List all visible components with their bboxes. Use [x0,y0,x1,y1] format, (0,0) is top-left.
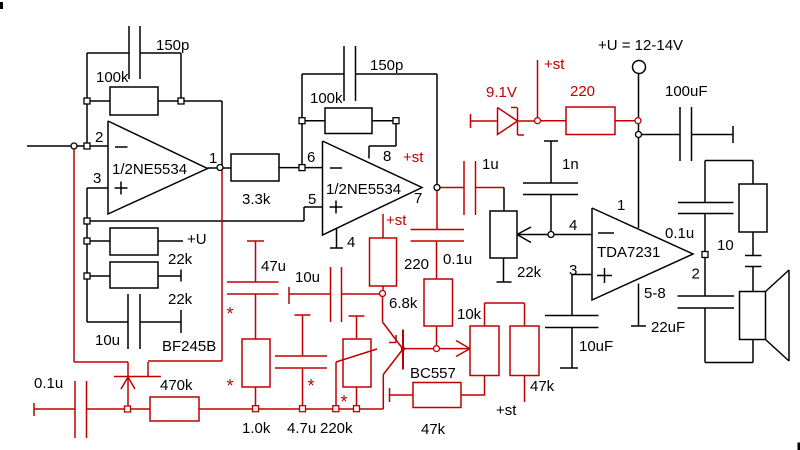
P1 wiper arrow lower barb [517,235,531,243]
node Q2 base R10 junction [434,346,440,352]
svg-text:47k: 47k [421,421,446,438]
wire C2 right lead [356,73,438,75]
wire Q1 drain drop [127,362,129,376]
wire C9 to volume pot [476,187,505,189]
svg-text:100k: 100k [310,90,343,107]
wire U3 pin 5-8 stub [638,284,640,327]
wire C11 to wiper node [550,195,552,235]
svg-text:1u: 1u [482,156,499,173]
C6 left terminal bar [288,287,290,304]
node rail C7 junction [300,406,306,412]
wire red U1 output to Q1 source [148,360,222,362]
wire R12 left lead [390,394,414,396]
op-amp U1 1/2NE5534 triangle [108,121,208,214]
capacitor C7 4.7u top plate [275,355,327,357]
wire R1 left lead [87,100,110,102]
resistor R13 47k [510,326,539,376]
wire feedback drop to U1 output [221,101,223,166]
wire R13 top drop [524,303,526,326]
wire zobel top link [705,160,753,162]
R11 arrowhead lower barb [456,349,470,357]
zener diode D1 9.1V triangle [498,108,518,135]
node U2 output [434,185,440,191]
Q2 emitter arrow barb vertical [395,335,397,343]
wire supply down to TDA pin 1 [638,74,640,229]
wire U2 pin 4 stub [336,228,338,248]
wire C5 top lead [255,241,257,282]
JFET Q1 channel [114,376,161,378]
svg-text:BC557: BC557 [410,365,456,382]
wire R5 right lead [158,275,181,277]
U3 pin 5-8 terminal bar [631,325,646,327]
wire R11 top riser [484,303,486,326]
svg-text:1: 1 [617,197,625,214]
svg-text:+st: +st [544,56,565,73]
svg-text:3: 3 [93,170,101,187]
wire R2 left lead [302,120,325,122]
svg-text:220: 220 [404,256,429,273]
svg-text:8: 8 [383,148,391,165]
Q1 gate arrow left leg [121,377,128,389]
U1 plus sign horizontal [115,187,128,189]
capacitor C4 0.1u left plate [74,381,76,438]
wire C13 bottom lead [704,308,706,363]
svg-text:*: * [227,304,234,324]
wire terminal to D1 [471,120,498,122]
wire P1 wiper to TDA pin 4 [517,234,592,236]
D1 zener top hook [511,107,518,109]
capacitor C13 22uF top plate [678,295,735,297]
node rail R7 junction [253,406,259,412]
svg-text:22k: 22k [517,264,542,281]
wire R15 to C15 [752,232,754,256]
C10 ground terminal bar [732,126,734,143]
wire R3 to U2 pin 6 [279,167,323,169]
D1 cathode bar [517,108,519,135]
svg-text:47k: 47k [530,378,555,395]
R5 ground terminal bar [180,270,182,282]
screen artifact mark bottom-right corner [798,443,800,450]
speaker LS1 cone top [766,270,790,292]
wire D1 to +st node [518,120,538,122]
svg-text:4.7u: 4.7u [287,420,316,437]
capacitor C7 4.7u bottom plate [275,367,327,369]
wire C6 left lead [289,293,331,295]
svg-text:1n: 1n [562,156,579,173]
wire C1 right lead [140,52,181,54]
wire Q1 gate down to rail [127,377,129,406]
wire U3 pin 3 down to C12 [571,275,573,316]
wire output node to C13 [704,257,706,296]
op-amp U2 1/2NE5534 triangle [323,141,423,235]
wire R8 wiper riser [335,362,337,409]
Q2 junction dot [401,347,405,351]
node input junction [71,143,77,149]
U2 pin 4 terminal bar [330,247,343,249]
Q2 emitter diagonal [383,322,403,349]
svg-text:2: 2 [95,129,103,146]
wire U2 output to C9 [437,187,464,189]
capacitor C6 10u left plate [330,267,332,322]
capacitor C2 150p left plate [343,46,345,101]
svg-text:5: 5 [308,191,316,208]
capacitor C11 1n bottom plate [523,194,578,196]
wire 0.1u zobel riser [704,161,706,203]
capacitor C8 0.1u top plate [411,229,465,231]
wire input terminal to C4 [34,408,75,410]
wire R12 up to R11 [484,376,486,396]
node P1 wiper junction [548,232,554,238]
node U1 pin 2 junction [84,143,90,149]
svg-text:0.1u: 0.1u [34,375,63,392]
resistor R2 100k [325,108,372,134]
wire bias rail to pin 5 run [87,220,304,222]
wire C13 to speaker return [705,362,753,364]
wire U2 output down to C8 [436,188,438,230]
svg-text:4: 4 [569,217,577,234]
wire R13 bottom stub to +st [524,376,526,403]
supply terminal circle [633,61,646,74]
svg-text:+st: +st [386,212,407,229]
wire R4 right lead to +U [158,240,183,242]
node rail gate junction [125,406,131,412]
svg-text:1/2NE5534: 1/2NE5534 [112,161,187,178]
capacitor C8 0.1u bottom plate [411,240,465,242]
P1 wiper arrow upper barb [517,227,531,235]
svg-text:BF245B: BF245B [162,338,216,355]
amplifier U3 TDA7231 triangle [592,208,693,300]
U3 plus sign vertical [604,268,606,283]
wire R2 right lead [372,120,396,122]
screen artifact mark top-left corner [0,2,3,9]
wire C8 to R10 [436,241,438,279]
node rail R8 junction [354,406,360,412]
capacitor C12 10uF top plate [545,315,599,317]
wire C5 to R7 [255,294,257,339]
resistor R4 22k upper [110,228,158,255]
node U1 output [217,165,223,171]
node R5 tap [84,273,90,279]
wire P1 bottom lead [503,258,505,282]
wire C1 left drop [86,53,88,101]
svg-text:150p: 150p [370,57,403,74]
wire R8 to rail [356,387,358,409]
U2 plus sign vertical [335,201,337,214]
wire U1 pin 3 lead [87,187,108,189]
svg-text:3: 3 [569,262,577,279]
svg-text:0.1u: 0.1u [665,225,694,242]
wire R11 to R13 top link [485,302,525,304]
wire U3 pin 3 lead [572,274,592,276]
wire U2 pin 8 stub [368,146,370,159]
svg-text:2: 2 [692,266,700,283]
node U2 feedback right [393,118,399,124]
wire speaker return riser [752,340,754,363]
svg-text:1.0k: 1.0k [242,420,271,437]
wire red input column down [73,148,75,362]
C3 ground terminal bar [180,310,182,333]
svg-text:100uF: 100uF [665,83,708,100]
node U2 feedback left lower [299,165,305,171]
C7 top terminal bar [295,314,311,316]
svg-text:22k: 22k [168,291,193,308]
wire to C3 left plate [87,321,128,323]
wire bias column down [86,221,88,322]
svg-text:4: 4 [347,234,355,251]
U2 plus sign horizontal [330,206,343,208]
capacitor C12 10uF bottom plate [545,327,599,329]
svg-text:6: 6 [307,149,315,166]
capacitor C3 10u right plate [139,294,141,349]
wire Q2 collector drop to rail [382,375,384,410]
resistor R1 100k [110,87,158,115]
svg-text:*: * [341,392,348,412]
svg-text:7: 7 [414,190,422,207]
svg-text:22uF: 22uF [651,319,685,336]
wire U2 feedback column [301,74,303,165]
svg-text:+U = 12-14V: +U = 12-14V [598,37,683,54]
svg-text:*: * [227,376,234,396]
wire U1 output to R3 [208,167,232,169]
speaker LS1 cone bottom [766,340,790,362]
wire R2 node down to pin 8 link [395,121,397,146]
wire C9 corner down to P1 [503,188,505,212]
wire C3 right lead [140,321,181,323]
wire R7 to rail [255,387,257,409]
svg-text:TDA7231: TDA7231 [597,244,660,261]
wire C7 top lead [302,315,304,356]
wire R10 to base node [436,326,438,349]
wire C4 to gate node [87,408,151,410]
Q1 gate arrow right leg [128,377,135,389]
wire pin 5 jog horizontal [304,206,323,208]
potentiometer P1 22k [490,211,517,258]
U3 plus sign horizontal [597,275,612,277]
node +st tap junction [535,118,541,124]
svg-text:5-8: 5-8 [644,285,666,302]
D1 anode terminal bar [470,114,472,128]
wire +st stub to R9 [382,214,384,238]
resistor R5 22k lower [110,262,158,288]
capacitor C4 0.1u right plate [86,381,88,438]
R8 top terminal bar [349,315,365,317]
wire +st node to R14 [538,120,567,122]
capacitor C5 47u top plate [227,281,279,283]
wire red to Q1 drain [74,361,128,363]
R8 wiper diagonal [336,349,377,362]
wire node A down from feedback node [86,101,88,143]
wire pin 5 jog vertical [303,207,305,221]
wire C6 right lead [342,293,383,295]
resistor R9 220 [370,238,397,286]
wire C2 right drop to U2 output [436,74,438,186]
wire R9 bottom to node [382,286,384,294]
C5 top terminal bar [247,240,264,242]
svg-text:*: * [308,376,315,396]
transistor Q2 BC557 base bar [402,330,404,370]
svg-text:470k: 470k [160,377,193,394]
Q2 emitter arrow barb horizontal [389,342,396,344]
node supply red junction [635,118,641,124]
capacitor C15 bottom plate [745,266,762,268]
speaker LS1 body [740,292,766,340]
resistor R14 220 [566,107,615,135]
resistor R15 10 [739,184,767,232]
U3 minus sign [598,232,614,234]
capacitor C6 10u right plate [341,267,343,322]
capacitor C5 47u bottom plate [227,293,279,295]
svg-text:220k: 220k [320,420,353,437]
wire C15 to speaker [752,267,754,292]
svg-text:9.1V: 9.1V [486,84,517,101]
wire C10 right lead [692,134,734,136]
svg-text:10u: 10u [295,269,320,286]
Q1 source riser [147,362,149,377]
wire red from U1 output down [221,170,223,361]
capacitor C9 1u right plate [475,161,477,215]
wire C1 left lead [87,52,129,54]
wire C11 top lead [550,141,552,183]
P1 ground terminal bar [497,281,512,283]
wire C12 bottom lead [571,328,573,369]
U1 plus sign vertical [120,182,122,195]
R11 arrowhead upper barb [456,341,470,349]
capacitor C1 150p left plate [128,26,130,79]
C11 top terminal bar [544,140,558,142]
wire C2 left lead [302,73,344,75]
node feedback left [84,98,90,104]
node U2 feedback left upper [299,118,305,124]
svg-text:+st: +st [496,402,517,419]
node rail wiper junction [333,406,339,412]
capacitor C10 100uF right plate [691,107,693,161]
wire bottom rail [199,408,383,410]
node U3 output [702,252,708,258]
svg-text:3.3k: 3.3k [242,191,271,208]
svg-text:150p: 150p [156,37,189,54]
resistor R7 1.0k [242,339,270,387]
wire U1 pin 3 down to bias node [86,188,88,221]
capacitor C1 150p right plate [139,26,141,79]
wire R12 right lead [461,394,485,396]
svg-text:+U: +U [187,231,207,248]
wire R1 right lead [158,100,181,102]
resistor R3 3.3k [231,154,279,181]
U2 inverting input minus sign [330,167,342,169]
wire C14 to output node [704,214,706,253]
resistor R6 470k [150,397,199,421]
capacitor C15 top plate [745,255,762,257]
svg-text:10uF: 10uF [579,338,613,355]
C12 ground terminal bar [560,367,578,369]
svg-text:1: 1 [209,150,217,167]
node R4 tap [84,238,90,244]
capacitor C10 100uF left plate [679,107,681,161]
capacitor C14 0.1u top plate [678,202,734,204]
svg-text:0.1u: 0.1u [443,251,472,268]
wire Q2 emitter column [382,294,384,323]
capacitor C13 22uF bottom plate [678,307,735,309]
svg-text:1/2NE5534: 1/2NE5534 [326,181,401,198]
wire +st riser [537,60,539,121]
wire Q2 base to R11 [403,348,470,350]
node C6 R9 emitter junction [380,291,386,297]
wire R8 top lead [356,316,358,339]
wire supply node to C10 [639,134,681,136]
capacitor C11 1n top plate [523,182,578,184]
Q2 collector diagonal [383,349,403,375]
capacitor C2 150p right plate [355,46,357,101]
C4 input terminal bar [33,403,35,416]
wire R5 left lead [87,275,110,277]
capacitor C14 0.1u bottom plate [678,213,734,215]
speaker LS1 cone mouth [788,270,790,361]
wire C7 to rail [302,368,304,409]
wire input to U1 pin 2 [27,145,108,147]
node supply black junction [636,132,642,138]
U1 inverting input minus sign [115,146,128,148]
resistor R8 220k [343,339,371,387]
wire U2 pin 8 horizontal [369,145,396,147]
wire feedback top run [181,100,222,102]
capacitor C9 1u left plate [463,161,465,215]
resistor R10 6.8k [424,279,453,326]
resistor R11 10k [470,326,499,376]
svg-text:10: 10 [717,237,734,254]
svg-text:22k: 22k [168,251,193,268]
svg-text:+st: +st [403,149,424,166]
wire C1 right drop [180,53,182,101]
svg-text:100k: 100k [96,69,129,86]
node feedback right [178,98,184,104]
wire R14 to supply node [615,120,638,122]
capacitor C3 10u left plate [127,294,129,349]
wire zobel link drop to R15 [752,161,754,185]
svg-text:220: 220 [570,83,595,100]
svg-text:10u: 10u [95,332,120,349]
R12 left terminal bar [389,388,391,402]
svg-text:10k: 10k [457,306,482,323]
svg-text:47u: 47u [261,258,286,275]
node U1 pin 3 bias [84,218,90,224]
wire R4 left lead [87,240,110,242]
D1 zener bottom hook [518,134,525,136]
resistor R12 47k [413,383,461,408]
svg-text:6.8k: 6.8k [389,295,418,312]
